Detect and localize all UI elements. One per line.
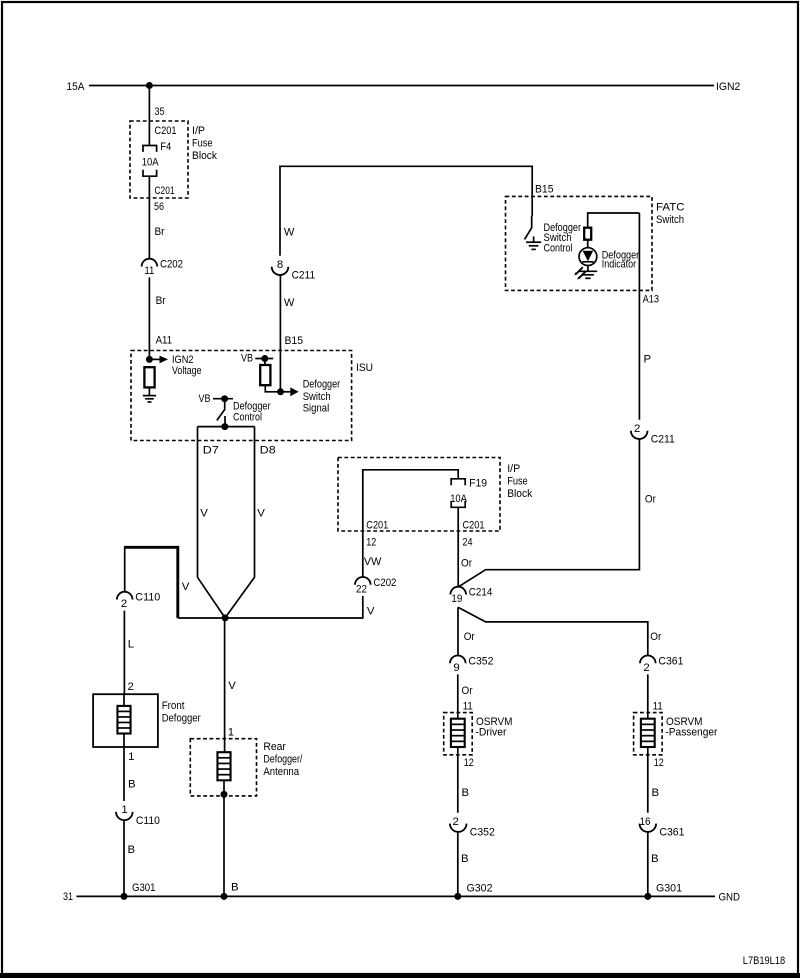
svg-text:Fuse: Fuse bbox=[507, 475, 528, 487]
pin C201-12 (left leg) bbox=[366, 520, 388, 549]
svg-text:C202: C202 bbox=[373, 577, 396, 589]
connector C211 pin 2 bbox=[631, 423, 675, 446]
svg-text:2: 2 bbox=[128, 681, 134, 693]
svg-text:Control: Control bbox=[544, 242, 573, 254]
OSRVM-Passenger box bbox=[634, 713, 718, 755]
svg-text:V: V bbox=[200, 507, 208, 519]
svg-text:VB: VB bbox=[241, 353, 253, 365]
wire Or from C211 to C214 bbox=[459, 439, 656, 587]
svg-text:22: 22 bbox=[356, 583, 367, 595]
front defogger box bbox=[93, 694, 201, 747]
svg-text:11: 11 bbox=[463, 700, 473, 712]
svg-text:I/P: I/P bbox=[507, 463, 520, 475]
wire V from C202-22 down to junction bus bbox=[178, 596, 375, 618]
svg-text:P: P bbox=[644, 353, 652, 365]
ground G302 (OSRVM driver) bbox=[454, 882, 492, 900]
svg-text:Or: Or bbox=[462, 685, 473, 697]
svg-text:31: 31 bbox=[63, 891, 73, 903]
svg-text:56: 56 bbox=[154, 201, 164, 213]
svg-text:2: 2 bbox=[634, 423, 640, 435]
svg-text:C214: C214 bbox=[469, 587, 493, 599]
svg-text:VB: VB bbox=[199, 393, 211, 405]
node junction on IGN2 feed bbox=[146, 82, 153, 89]
svg-text:35: 35 bbox=[155, 106, 165, 118]
svg-text:B: B bbox=[652, 787, 660, 799]
svg-text:-Passenger: -Passenger bbox=[665, 726, 717, 738]
svg-text:B: B bbox=[231, 881, 239, 893]
connector C211 pin 8 bbox=[272, 259, 315, 282]
svg-text:2: 2 bbox=[643, 662, 649, 674]
wire W from C211 to ISU pin B15 bbox=[280, 274, 303, 391]
node B15 junction + Defogger Switch Signal arrow bbox=[277, 378, 340, 414]
svg-text:C201: C201 bbox=[463, 520, 485, 532]
svg-text:C211: C211 bbox=[292, 270, 316, 282]
svg-text:C352: C352 bbox=[468, 655, 493, 667]
svg-text:C201: C201 bbox=[155, 185, 175, 197]
svg-text:16: 16 bbox=[640, 816, 651, 828]
wire V from junction to rear defogger bbox=[225, 618, 237, 752]
svg-text:9: 9 bbox=[453, 662, 459, 674]
svg-text:C361: C361 bbox=[659, 827, 684, 839]
svg-text:Voltage: Voltage bbox=[172, 365, 202, 377]
svg-text:L7B19L18: L7B19L18 bbox=[743, 955, 785, 967]
resistor VB pull-up bbox=[260, 359, 280, 392]
ground (ISU internal) bbox=[143, 396, 156, 402]
svg-text:15A: 15A bbox=[67, 81, 85, 93]
wire fuse block internal feed bbox=[363, 470, 458, 531]
svg-text:V: V bbox=[257, 507, 265, 519]
svg-text:8: 8 bbox=[277, 259, 283, 271]
wire B OSRVM driver to C352-2 bbox=[458, 747, 474, 813]
wire W from C211 up and over to FATC B15 bbox=[280, 166, 532, 256]
svg-text:Block: Block bbox=[507, 488, 532, 500]
wire B rear defogger to ground bus bbox=[224, 780, 239, 896]
drawing code label bbox=[743, 955, 785, 967]
svg-text:B: B bbox=[128, 778, 136, 790]
I/P Fuse Block (F19) bbox=[338, 458, 532, 532]
ground (LED cathode) bbox=[579, 266, 598, 279]
ground (FATC switch) bbox=[526, 242, 541, 249]
svg-text:G301: G301 bbox=[132, 882, 156, 894]
svg-text:Antenna: Antenna bbox=[263, 766, 299, 778]
fuse F4 10A bbox=[142, 141, 171, 176]
svg-text:W: W bbox=[284, 227, 295, 239]
svg-text:Or: Or bbox=[645, 493, 656, 505]
svg-text:C110: C110 bbox=[135, 592, 160, 604]
svg-text:Rear: Rear bbox=[263, 741, 286, 753]
node V junction (to rear defogger) bbox=[222, 614, 229, 621]
heater element (OSRVM driver) bbox=[451, 719, 465, 747]
svg-text:A13: A13 bbox=[643, 293, 660, 305]
wire Or C352 to OSRVM driver bbox=[458, 674, 473, 718]
svg-text:B: B bbox=[128, 844, 136, 856]
wire C202 to ISU pin A11 (Br) bbox=[149, 277, 172, 359]
svg-text:Indicator: Indicator bbox=[602, 258, 637, 270]
node VB (resistor to defogger switch signal) bbox=[241, 353, 273, 365]
svg-text:C361: C361 bbox=[658, 655, 683, 667]
pin C201-24 (right leg) bbox=[463, 520, 485, 549]
wire from IGN2 feed to fuse F4 bbox=[149, 86, 164, 146]
fuse F19 10A bbox=[450, 477, 487, 507]
svg-text:C202: C202 bbox=[160, 259, 183, 271]
wire A13 from FATC down (P) bbox=[639, 213, 659, 420]
svg-text:2: 2 bbox=[121, 598, 127, 610]
wire B from C361-16 to ground bus bbox=[648, 831, 659, 896]
node A11 junction + IGN2 Voltage arrow bbox=[146, 354, 202, 377]
svg-text:10A: 10A bbox=[142, 157, 159, 169]
svg-text:-Driver: -Driver bbox=[475, 726, 506, 738]
wire B OSRVM passenger to C361-16 bbox=[648, 747, 664, 813]
svg-text:D7: D7 bbox=[203, 445, 219, 457]
connector C352 pin 9 bbox=[450, 655, 493, 674]
svg-text:A11: A11 bbox=[156, 335, 173, 347]
svg-text:Or: Or bbox=[461, 557, 472, 569]
svg-text:C201: C201 bbox=[366, 520, 388, 532]
svg-text:1: 1 bbox=[121, 804, 127, 816]
node rear defogger to bus bbox=[221, 893, 228, 900]
wire fuse F4 to connector C202 (Br) bbox=[149, 176, 164, 259]
node on rear defogger box edge bbox=[221, 791, 228, 798]
node B15 (FATC) bbox=[535, 183, 554, 195]
svg-text:Defogger: Defogger bbox=[233, 400, 271, 412]
connector C202 pin 11 bbox=[142, 259, 183, 278]
svg-text:1: 1 bbox=[128, 751, 134, 763]
svg-text:B15: B15 bbox=[535, 183, 554, 195]
svg-text:B: B bbox=[461, 853, 469, 865]
pin C201 (bottom of F4) bbox=[155, 185, 175, 197]
svg-text:FATC: FATC bbox=[656, 202, 685, 214]
wire ground bus 31/GND bbox=[63, 891, 740, 904]
heater element (rear defogger) bbox=[217, 752, 230, 780]
svg-text:C352: C352 bbox=[470, 827, 495, 839]
wire thick branch to C110 bbox=[124, 547, 190, 618]
svg-text:L: L bbox=[128, 638, 134, 650]
svg-text:C201: C201 bbox=[155, 125, 177, 137]
svg-text:Defogger: Defogger bbox=[303, 378, 341, 390]
resistor in ISU (A11 pulldown) bbox=[144, 367, 154, 395]
svg-text:G301: G301 bbox=[656, 882, 682, 894]
svg-text:C211: C211 bbox=[651, 434, 675, 446]
wire B from C352-2 to ground bus bbox=[458, 831, 469, 896]
wire VW to C202-22 bbox=[363, 531, 382, 578]
svg-text:B: B bbox=[462, 787, 470, 799]
svg-text:Br: Br bbox=[155, 226, 165, 238]
wire IGN2 15A feed bbox=[67, 81, 741, 93]
svg-text:Block: Block bbox=[192, 150, 217, 162]
svg-text:V: V bbox=[367, 605, 375, 617]
svg-text:GND: GND bbox=[719, 891, 741, 903]
svg-text:Br: Br bbox=[156, 295, 166, 307]
svg-text:Switch: Switch bbox=[656, 214, 684, 226]
svg-text:ISU: ISU bbox=[356, 362, 373, 374]
OSRVM-Driver box bbox=[444, 713, 513, 755]
resistor (LED series) bbox=[584, 228, 591, 248]
wire L from C110 to front defogger bbox=[124, 611, 134, 695]
wire Or C361 to OSRVM passenger bbox=[648, 674, 663, 718]
heater element (front defogger) bbox=[117, 694, 130, 747]
svg-text:Signal: Signal bbox=[303, 403, 330, 415]
svg-text:I/P: I/P bbox=[192, 125, 205, 137]
svg-text:10A: 10A bbox=[450, 493, 467, 505]
connector C110 pin 2 bbox=[117, 592, 160, 611]
svg-text:F4: F4 bbox=[160, 141, 171, 153]
svg-text:G302: G302 bbox=[467, 882, 493, 894]
svg-text:12: 12 bbox=[366, 536, 376, 548]
connector C352 pin 2 bbox=[450, 816, 495, 839]
svg-text:VW: VW bbox=[364, 556, 382, 568]
svg-text:Fuse: Fuse bbox=[192, 138, 213, 150]
svg-text:12: 12 bbox=[464, 757, 474, 769]
ground G301 (front defogger) bbox=[121, 882, 156, 900]
I/P Fuse Block (F4) bbox=[130, 121, 217, 198]
svg-text:IGN2: IGN2 bbox=[716, 81, 740, 93]
svg-text:Switch: Switch bbox=[303, 391, 331, 403]
svg-text:12: 12 bbox=[654, 757, 664, 769]
svg-text:V: V bbox=[228, 680, 236, 692]
svg-text:24: 24 bbox=[463, 536, 473, 548]
op-amp: ISU module box bbox=[131, 351, 373, 441]
svg-text:Defogger/: Defogger/ bbox=[263, 754, 303, 766]
svg-text:B15: B15 bbox=[285, 335, 304, 347]
switch: defogger switch control contact bbox=[525, 216, 582, 254]
svg-text:Defogger: Defogger bbox=[162, 713, 201, 725]
svg-text:11: 11 bbox=[144, 265, 154, 277]
wire D8 output (V) bbox=[225, 427, 276, 618]
rear defogger/antenna box bbox=[190, 739, 303, 796]
wire Or from F19 to C214 bbox=[458, 507, 472, 587]
LED: Defogger Indicator bbox=[574, 248, 639, 280]
svg-text:19: 19 bbox=[451, 593, 462, 605]
node VB (defogger control) bbox=[199, 393, 271, 424]
svg-text:Or: Or bbox=[650, 631, 661, 643]
wire D7 output (V) bbox=[198, 427, 226, 618]
transistor switch: Defogger Control contact bbox=[217, 399, 228, 430]
svg-text:W: W bbox=[284, 297, 295, 309]
ground G301 (OSRVM passenger) bbox=[644, 882, 682, 900]
wire B front defogger to C110-1 bbox=[124, 747, 136, 801]
svg-text:Or: Or bbox=[464, 631, 475, 643]
wire B from C110-1 to ground bus bbox=[124, 820, 135, 897]
wire LED feed bbox=[588, 213, 640, 228]
FATC Switch box bbox=[506, 196, 685, 290]
svg-text:1: 1 bbox=[228, 726, 234, 738]
connector C361 pin 2 bbox=[640, 655, 683, 674]
connector C361 pin 16 bbox=[640, 816, 685, 839]
wire Or split below C214 bbox=[458, 607, 661, 656]
pin C201 (top of F4) bbox=[155, 125, 177, 137]
svg-text:Front: Front bbox=[162, 700, 186, 712]
svg-text:V: V bbox=[182, 581, 190, 593]
wire D7-D8 internal bus bbox=[198, 426, 255, 428]
svg-text:B: B bbox=[651, 853, 659, 865]
svg-text:2: 2 bbox=[453, 816, 459, 828]
svg-text:F19: F19 bbox=[469, 477, 487, 489]
connector C110 pin 1 bbox=[116, 804, 160, 827]
svg-text:Control: Control bbox=[233, 412, 262, 424]
svg-text:11: 11 bbox=[653, 700, 663, 712]
connector C202 pin 22 bbox=[355, 577, 396, 596]
svg-text:C110: C110 bbox=[136, 815, 160, 827]
heater element (OSRVM passenger) bbox=[641, 719, 655, 747]
connector C214 pin 19 bbox=[450, 587, 492, 606]
svg-text:D8: D8 bbox=[260, 445, 276, 457]
